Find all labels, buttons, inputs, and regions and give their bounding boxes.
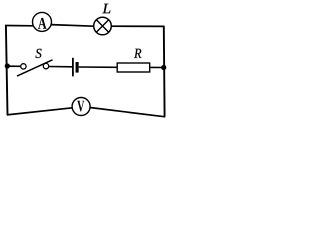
battery cell BT1: long plate	[72, 58, 74, 77]
ammeter A1	[33, 12, 52, 31]
label L	[102, 4, 110, 13]
node: left junction	[5, 63, 10, 68]
wire: switch to battery	[49, 66, 72, 68]
wire: left border (top-left corner to bottom-left corner)	[6, 26, 8, 115]
battery cell BT1: short thick plate	[76, 62, 79, 73]
wire: top-left corner to ammeter	[5, 25, 33, 27]
resistor R (box)	[117, 63, 150, 72]
wire: voltmeter to bottom-right corner	[90, 108, 165, 117]
wire: bottom-left corner to voltmeter	[7, 108, 73, 115]
wire: resistor to right junction	[150, 66, 164, 68]
label S	[35, 49, 41, 58]
node: right junction	[161, 65, 166, 70]
wire: lamp to top-right corner	[111, 25, 164, 27]
wire: right border (top-right corner to bottom-right corner)	[163, 26, 166, 116]
voltmeter V1	[72, 98, 90, 116]
wire: ammeter to lamp	[51, 25, 94, 27]
wire: battery to resistor	[79, 66, 117, 68]
label R	[134, 49, 141, 58]
switch S	[17, 60, 53, 76]
lamp L	[94, 17, 112, 35]
wire: left junction to switch	[7, 65, 20, 67]
